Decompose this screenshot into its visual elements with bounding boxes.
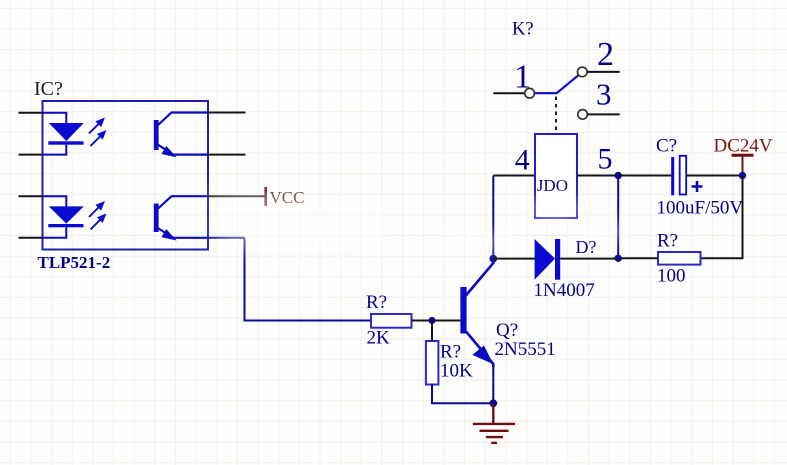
wire diode cathode to node xyxy=(560,258,618,260)
wire DC24V node down to R 100 xyxy=(701,176,743,259)
svg-text:2N5551: 2N5551 xyxy=(495,339,556,360)
resistor R? 100 xyxy=(658,252,701,265)
svg-text:R?: R? xyxy=(440,342,461,363)
LED D2 cathode lead xyxy=(43,227,67,238)
wire node 5 down to diode node xyxy=(617,176,619,259)
label 2N5551 xyxy=(495,339,556,360)
wire collector Q-B to VCC xyxy=(208,195,265,197)
label K? xyxy=(512,20,534,40)
switch pin 1 wire xyxy=(493,92,525,94)
label TLP521-2 xyxy=(38,253,111,272)
label R? (2K) xyxy=(366,292,387,313)
svg-text:4: 4 xyxy=(515,144,530,177)
svg-text:2K: 2K xyxy=(367,328,391,349)
switch contact 2 xyxy=(578,67,588,77)
phototransistor Q-A base bar xyxy=(154,120,159,150)
svg-text:K?: K? xyxy=(512,20,534,40)
svg-text:1: 1 xyxy=(514,59,531,96)
label R? (100) xyxy=(657,231,678,252)
wire relay pin 5 to node xyxy=(577,175,618,177)
svg-text:1N4007: 1N4007 xyxy=(534,280,595,301)
switch arm xyxy=(534,75,578,93)
svg-text:DC24V: DC24V xyxy=(714,136,773,157)
white haze artifacts xyxy=(204,187,638,256)
svg-text:IC?: IC? xyxy=(34,78,63,100)
switch contact 1 xyxy=(525,88,535,98)
optocoupler IC? box xyxy=(43,101,209,250)
label 100 xyxy=(657,266,686,287)
resistor R? 10K xyxy=(426,341,439,385)
wire base node to R 10K xyxy=(431,321,433,342)
label 2K xyxy=(367,328,391,349)
wire node 5 to capacitor xyxy=(618,175,671,177)
switch contact 3 xyxy=(578,110,588,120)
switch pin 2 wire xyxy=(587,71,620,73)
dashed link relay to switch xyxy=(555,97,557,135)
wire R 100 to diode node xyxy=(618,257,658,259)
svg-text:R?: R? xyxy=(657,231,678,252)
LED D2 light arrows xyxy=(89,203,105,230)
diode D? 1N4007 xyxy=(535,239,561,280)
phototransistor Q-B base bar xyxy=(154,204,159,233)
wire relay pin 4 xyxy=(493,175,535,177)
LED D1 anode lead xyxy=(43,113,67,124)
transistor Q? collector xyxy=(465,259,493,297)
switch pin 3 wire xyxy=(587,113,619,115)
label pin 5 xyxy=(598,142,613,175)
label 100uF/50V xyxy=(657,198,744,219)
wire collector node to diode anode xyxy=(493,258,534,260)
label JDO xyxy=(537,176,568,195)
label Q? xyxy=(496,320,518,341)
wire R 10K to emitter node xyxy=(432,385,493,404)
wire collector node up to relay pin 4 xyxy=(492,176,494,259)
junction base node xyxy=(428,317,435,324)
LED D1 xyxy=(48,123,84,145)
svg-text:100uF/50V: 100uF/50V xyxy=(657,198,744,219)
svg-text:C?: C? xyxy=(656,136,677,157)
LED D2 anode lead xyxy=(43,196,67,207)
phototransistor Q-A emitter xyxy=(157,144,208,156)
phototransistor Q-B collector xyxy=(157,196,208,209)
pin 3 stub (anode LED2) xyxy=(19,195,43,197)
label 10K xyxy=(440,361,473,382)
svg-text:2: 2 xyxy=(597,36,614,73)
svg-text:TLP521-2: TLP521-2 xyxy=(38,253,111,272)
phototransistor Q-A collector xyxy=(157,113,208,127)
junction collector node xyxy=(489,255,497,263)
junction ground node xyxy=(489,399,497,407)
transistor Q? emitter xyxy=(466,332,493,368)
pin 7 stub (emitter Q-A) xyxy=(208,154,246,156)
wire emitter to ground node xyxy=(492,365,494,403)
LED D1 cathode lead xyxy=(43,145,67,155)
resistor R? 2K xyxy=(371,314,412,328)
svg-text:5: 5 xyxy=(598,142,613,175)
transistor Q? base bar xyxy=(460,287,466,334)
pin 1 stub (anode LED1) xyxy=(19,112,43,114)
label D? xyxy=(576,237,597,257)
wire capacitor to DC24V node xyxy=(686,175,742,177)
label 1N4007 xyxy=(534,280,595,301)
label IC? xyxy=(34,78,63,100)
svg-text:JDO: JDO xyxy=(537,176,568,195)
capacitor C? xyxy=(673,156,703,196)
svg-text:3: 3 xyxy=(596,77,612,112)
svg-text:R?: R? xyxy=(366,292,387,313)
wire emitter Q-B down to R 2K xyxy=(245,238,372,321)
pin 2 stub (cathode LED1) xyxy=(19,154,43,156)
pin 8 stub (collector Q-A) xyxy=(208,112,246,114)
pin 4 stub (cathode LED2) xyxy=(19,237,43,239)
label pin 2 xyxy=(597,36,614,73)
wire R 2K to base Q? xyxy=(412,320,461,322)
label C? xyxy=(656,136,677,157)
svg-text:Q?: Q? xyxy=(496,320,518,341)
label pin 3 xyxy=(596,77,612,112)
power port DC24V xyxy=(714,136,773,173)
junction diode node xyxy=(615,255,622,262)
ground xyxy=(473,403,515,443)
pin 6 stub (emitter Q-B) xyxy=(208,237,245,239)
phototransistor Q-B emitter xyxy=(157,228,208,239)
label pin 4 xyxy=(515,144,530,177)
label pin 1 xyxy=(514,59,531,96)
relay coil JDO box xyxy=(535,134,577,218)
label R? (10K) xyxy=(440,342,461,363)
LED D1 light arrows xyxy=(89,119,105,146)
LED D2 xyxy=(48,206,84,227)
svg-text:10K: 10K xyxy=(440,361,473,382)
svg-text:100: 100 xyxy=(657,266,686,287)
power port VCC xyxy=(266,187,305,207)
junction node 5 xyxy=(615,172,622,179)
junction DC24V node xyxy=(739,172,746,179)
